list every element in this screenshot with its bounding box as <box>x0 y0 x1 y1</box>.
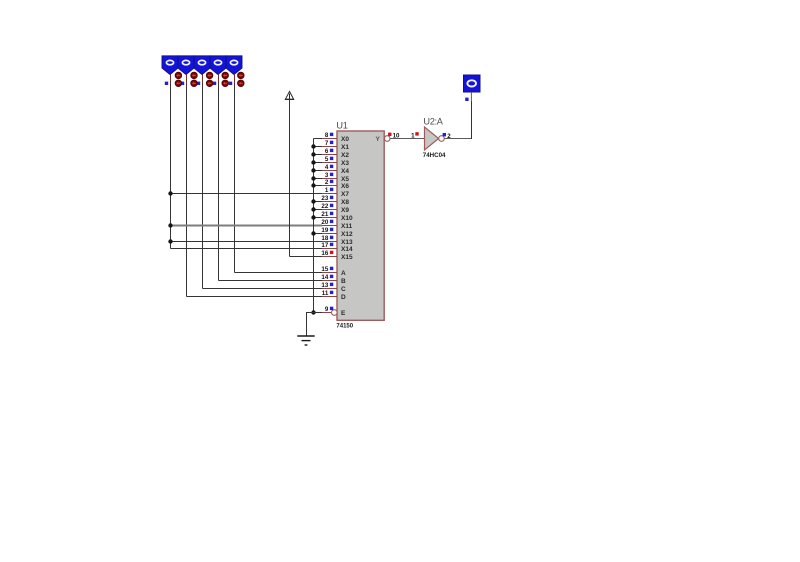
svg-text:X1: X1 <box>341 144 349 151</box>
pin 18 (X13) <box>321 235 337 242</box>
svg-text:15: 15 <box>321 266 328 273</box>
switch S3 (digital constant "0") <box>194 56 210 75</box>
wire: bus to pin X10 <box>314 217 323 219</box>
junction: bus / X8 <box>311 199 315 203</box>
junction: bus / X2 <box>311 152 315 156</box>
switch S2 pin indicator <box>181 82 184 85</box>
pin 13 (C) <box>321 282 337 289</box>
junction: bus / E wire <box>311 310 315 314</box>
wire: switch S3 vertical <box>202 84 204 289</box>
indicator X1 (digital probe "0") <box>464 75 481 92</box>
junction: bus / X10 <box>311 215 315 219</box>
svg-text:4: 4 <box>325 164 329 171</box>
svg-text:11: 11 <box>322 290 329 297</box>
svg-text:6: 6 <box>325 148 329 155</box>
switch S4 (digital constant "0") <box>210 56 226 75</box>
svg-text:X14: X14 <box>341 246 353 253</box>
wire: bus to pin X4 <box>314 170 323 172</box>
switch S2 pin stub <box>186 74 188 83</box>
svg-text:X3: X3 <box>341 160 349 167</box>
pin 1 (U2 input) <box>411 132 419 139</box>
svg-text:X8: X8 <box>341 199 349 206</box>
svg-text:U1: U1 <box>336 121 347 131</box>
wire: bus to pin X2 <box>314 154 323 156</box>
wire: to pin A <box>235 272 323 274</box>
svg-text:X10: X10 <box>341 215 353 222</box>
svg-text:C: C <box>341 286 346 293</box>
pin 8 (X0) <box>322 132 337 139</box>
wire: to pin X14 <box>171 248 323 250</box>
wire: switch S1 vertical <box>170 84 172 249</box>
svg-text:B: B <box>341 278 346 285</box>
pin 5 (X3) <box>322 156 337 163</box>
junction: bus / X5 <box>311 176 315 180</box>
svg-text:3: 3 <box>325 172 329 179</box>
svg-text:A: A <box>341 270 346 277</box>
IC U1 74150 body <box>336 121 384 330</box>
switch S5 pin indicator <box>229 82 232 85</box>
switch S2 (digital constant "0") <box>178 56 194 75</box>
power VCC arrow <box>285 91 294 99</box>
svg-text:X7: X7 <box>341 191 349 198</box>
switch S5 pin stub <box>234 74 236 83</box>
switch S4 pin indicator <box>213 82 216 85</box>
pin 16 (X15) <box>321 250 337 257</box>
pin 23 (X8) <box>321 195 337 202</box>
wire: Y output to U2 input <box>390 138 424 140</box>
svg-text:74HC04: 74HC04 <box>423 152 446 159</box>
wire: switch S5 vertical <box>234 84 236 273</box>
junction: bus / X9 <box>311 207 315 211</box>
svg-text:21: 21 <box>321 211 328 218</box>
svg-text:7: 7 <box>325 140 329 147</box>
wire: ground bus vertical <box>313 139 315 313</box>
pin 10 (Y output) <box>384 132 400 141</box>
wire: to pin B <box>219 280 323 282</box>
svg-text:18: 18 <box>321 235 328 242</box>
connector pad pair 1 <box>175 72 182 87</box>
pin 9 (E) <box>322 306 337 316</box>
junction: bus / X3 <box>311 160 315 164</box>
svg-text:Y: Y <box>376 136 381 143</box>
junction: S1 column / X13 wire <box>168 239 172 243</box>
pin 6 (X2) <box>322 148 337 155</box>
switch S3 pin indicator <box>197 82 200 85</box>
svg-text:X2: X2 <box>341 152 349 159</box>
wire: bus to pin X6 <box>314 185 323 187</box>
switch S5 (digital constant "0") <box>226 56 242 75</box>
connector pad pair 5 <box>238 72 245 87</box>
junction: bus / X4 <box>311 168 315 172</box>
svg-text:X12: X12 <box>341 231 353 238</box>
svg-text:X11: X11 <box>341 223 353 230</box>
wire: X0 to bus <box>314 138 323 140</box>
op U2:A inverter 74HC04 <box>423 117 446 160</box>
pin 7 (X1) <box>322 140 337 147</box>
pin 19 (X12) <box>321 227 337 234</box>
svg-text:20: 20 <box>321 219 328 226</box>
wire: to pin D <box>187 296 323 298</box>
wire: to pin X11 <box>171 225 323 227</box>
switch S1 (digital constant "0") <box>162 56 178 75</box>
junction: S1 column / X11 wire <box>168 223 172 227</box>
pin 4 (X4) <box>322 164 337 171</box>
wire: bus to pin X12 <box>314 233 323 235</box>
svg-text:X9: X9 <box>341 207 349 214</box>
wire: to pin C <box>203 288 323 290</box>
wire: U2 output to probe (horizontal) <box>444 138 472 140</box>
svg-text:1: 1 <box>411 132 415 139</box>
svg-text:5: 5 <box>325 156 329 163</box>
indicator pin indicator square <box>465 98 468 101</box>
pin 3 (X5) <box>322 172 337 179</box>
svg-text:1: 1 <box>325 187 329 194</box>
switch S4 pin stub <box>218 74 220 83</box>
pin 2 (X6) <box>322 179 337 186</box>
wire: bus to pin X1 <box>314 146 323 148</box>
svg-text:8: 8 <box>325 132 329 139</box>
svg-text:2: 2 <box>325 179 329 186</box>
svg-text:23: 23 <box>321 195 328 202</box>
svg-text:13: 13 <box>321 282 328 289</box>
svg-text:17: 17 <box>321 242 328 249</box>
pin 15 (A) <box>321 266 337 273</box>
switch S1 pin stub <box>170 74 172 83</box>
svg-text:74150: 74150 <box>336 323 353 329</box>
wire: bus to pin X3 <box>314 162 323 164</box>
svg-text:X4: X4 <box>341 168 349 175</box>
svg-text:X5: X5 <box>341 176 349 183</box>
svg-text:X13: X13 <box>341 239 353 246</box>
junction: bus / X6 <box>311 183 315 187</box>
wire: switch S4 vertical <box>218 84 220 281</box>
junction: bus / X12 <box>311 231 315 235</box>
svg-text:14: 14 <box>321 274 328 281</box>
pin 2 (U2 output) <box>443 133 452 140</box>
svg-text:X15: X15 <box>341 254 353 261</box>
pin 17 (X14) <box>321 242 337 249</box>
wire: bus to pin X5 <box>314 178 323 180</box>
svg-text:19: 19 <box>321 227 328 234</box>
connector pad pair 2 <box>191 72 198 87</box>
indicator pin stub <box>470 92 472 102</box>
wire: bus to pin X8 <box>314 201 323 203</box>
pin 11 (D) <box>322 290 337 297</box>
ground <box>297 336 314 345</box>
wire: VCC to pin X15 <box>290 256 323 258</box>
svg-text:16: 16 <box>321 250 328 257</box>
wire: to pin X13 <box>171 241 323 243</box>
svg-text:E: E <box>341 310 346 317</box>
wire: bus to pin X9 <box>314 209 323 211</box>
svg-text:U2:A: U2:A <box>423 117 443 127</box>
connector pad pair 4 <box>222 72 229 87</box>
pin 21 (X10) <box>321 211 337 218</box>
connector pad pair 3 <box>206 72 213 87</box>
pin 22 (X9) <box>321 203 337 210</box>
pin 14 (B) <box>321 274 337 281</box>
svg-text:X0: X0 <box>341 136 349 143</box>
pin 1 (X7) <box>322 187 337 194</box>
switch S3 pin stub <box>202 74 204 83</box>
junction: bus / X1 <box>311 144 315 148</box>
wire: switch S2 vertical <box>186 84 188 297</box>
junction: S1 column / X7 wire <box>168 191 172 195</box>
wire: probe drop (vertical) <box>471 101 473 139</box>
svg-text:X6: X6 <box>341 183 349 190</box>
wire: VCC vertical <box>289 99 291 256</box>
wire: to pin X7 <box>171 193 323 195</box>
svg-text:22: 22 <box>321 203 328 210</box>
svg-text:D: D <box>341 294 346 301</box>
pin 20 (X11) <box>321 219 337 226</box>
wire: E pin to ground <box>307 313 332 337</box>
svg-text:9: 9 <box>325 306 329 313</box>
switch S1 pin indicator <box>165 82 168 85</box>
